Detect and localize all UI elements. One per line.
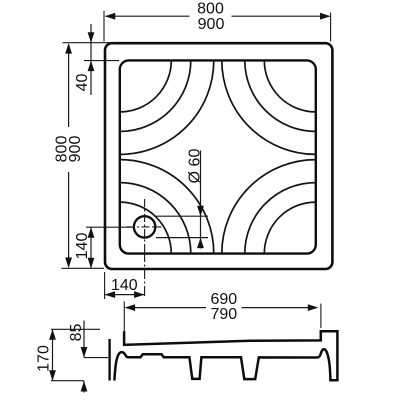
dimension 140 left: arrowheads (88, 227, 95, 268)
svg-text:900: 900 (67, 136, 84, 163)
tray outer edge (top view) (105, 43, 332, 269)
dimension diameter 60: tangent reference lines (156, 216, 208, 237)
corner arcs bottom-left (120, 160, 214, 254)
dimension 170: dimension line (52, 329, 54, 380)
dimension 140 bottom: extension line (104, 272, 106, 299)
dimension 140 bottom: arrowheads (105, 291, 145, 298)
dimension 800/900 top: arrowheads (105, 13, 331, 20)
dimension text 85 (rotated) (68, 324, 85, 342)
dimension 85: extension line to underside (84, 357, 108, 359)
dimension 690/790: extension lines (124, 302, 321, 334)
dimension 800/900 left: dimension line (68, 45, 70, 267)
dimension text 140 bottom (111, 277, 138, 294)
svg-text:800: 800 (197, 0, 224, 17)
svg-text:790: 790 (210, 306, 237, 323)
dimension 85: dimension line upper (83, 321, 85, 358)
dimension 85: dimension line lower (83, 381, 85, 393)
dimension text 800 top (197, 0, 224, 17)
dimension 800/900 top: dimension line (106, 15, 330, 17)
dimension 800/900 left: arrowheads (65, 43, 72, 268)
dimension 690/790: dimension line (126, 307, 308, 309)
dimension 140 bottom: dimension line (105, 294, 145, 296)
svg-text:170: 170 (36, 345, 53, 372)
svg-text:85: 85 (68, 324, 85, 342)
svg-text:Ø 60: Ø 60 (187, 149, 204, 184)
svg-text:900: 900 (198, 16, 225, 33)
drain center line horizontal (127, 226, 162, 228)
dimension 40: dimension line (90, 24, 92, 95)
dimension 170: arrowheads (49, 329, 56, 380)
drain circle (134, 216, 155, 237)
section profile left rim bar (108, 339, 110, 381)
drain center line vertical (144, 199, 146, 252)
dimension 40: inner edge extension line (84, 60, 119, 62)
dimension 170: extension line top (51, 328, 100, 330)
dimension 85: arrowheads (81, 347, 88, 392)
dimension diameter 60: arrowheads (197, 206, 204, 248)
corner arcs bottom-right (222, 160, 316, 254)
dimension 140 left: extension line to drain (86, 226, 133, 228)
dimension 140 left: dimension line (90, 227, 92, 268)
corner arcs top-right (222, 60, 316, 154)
svg-text:140: 140 (111, 277, 138, 294)
dimension text 790 (210, 306, 237, 323)
dimension text 900 top (198, 16, 225, 33)
dimension diameter 60: dimension line (200, 151, 202, 249)
dimension text 800 left (rotated) (54, 136, 71, 163)
dimension 800/900 top: extension lines (104, 11, 331, 42)
dimension 170: extension line ground (51, 380, 84, 382)
dimension text 140 left (rotated) (74, 233, 91, 260)
tray inner basin edge (top view) (120, 60, 316, 253)
dimension text 690 (210, 291, 237, 308)
dimension 40: arrowheads (88, 32, 95, 71)
svg-text:40: 40 (74, 74, 91, 92)
dimension text 40 (rotated) (74, 74, 91, 92)
dimension 690/790: arrowheads (125, 304, 319, 311)
corner arcs top-left (120, 60, 214, 154)
svg-text:140: 140 (74, 233, 91, 260)
dimension text diameter 60 (rotated) (187, 149, 204, 184)
drain center extension line down (144, 252, 146, 299)
dimension 800/900 left: extension lines (62, 43, 115, 269)
section profile main outline (114, 331, 337, 380)
dimension text 900 left (rotated) (67, 136, 84, 163)
dimension text 170 (rotated) (36, 345, 53, 372)
